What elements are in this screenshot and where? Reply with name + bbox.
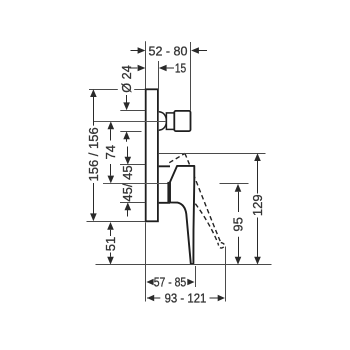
ext line plate face top — [158, 61, 160, 89]
svg-text:156 / 156: 156 / 156 — [86, 127, 101, 181]
ext line plate bottom left — [87, 221, 146, 223]
svg-text:93 - 121: 93 - 121 — [165, 291, 207, 306]
ext line bottom reference — [96, 264, 272, 266]
svg-text:15: 15 — [175, 61, 186, 76]
svg-text:95: 95 — [230, 217, 245, 231]
centerline knob axis — [94, 121, 166, 123]
svg-text:51: 51 — [103, 237, 118, 251]
svg-text:45/ 45: 45/ 45 — [120, 165, 135, 201]
handle base cap — [159, 166, 170, 203]
dimension 15 — [129, 67, 174, 69]
ext line knob tip top — [190, 42, 192, 111]
svg-text:74: 74 — [103, 145, 118, 159]
ext line wall face top — [145, 41, 147, 88]
dashed lever raised position upper edge — [169, 153, 185, 162]
diverter knob dome — [159, 112, 167, 130]
ext line 45 top — [120, 164, 145, 166]
dimension 129 — [257, 161, 259, 194]
ext line handle axis right 95 — [220, 183, 249, 185]
ext line dashed tip bottom 93-121 — [225, 247, 227, 302]
centerline handle axis — [103, 183, 168, 185]
dimension 45 / 45 — [127, 147, 129, 158]
svg-text:Ø 24: Ø 24 — [119, 65, 134, 93]
dimension 51 — [110, 230, 112, 236]
dimension 57 - 85 — [146, 279, 153, 285]
svg-text:129: 129 — [250, 194, 265, 216]
ext line knob bottom for dia 24 — [120, 131, 141, 133]
dimension 74 — [110, 129, 112, 140]
dimension 156 / 156 — [93, 97, 95, 126]
ext line lever edge bottom 57-85 — [195, 266, 197, 287]
ext line wall face bottom — [145, 223, 147, 302]
dimension 52 - 80 — [131, 50, 208, 52]
ext line plate top left — [89, 89, 118, 91]
dashed lever raised position outer edge — [185, 153, 221, 242]
svg-text:57 - 85: 57 - 85 — [154, 274, 187, 289]
dimension 95 — [238, 192, 240, 212]
dimension 93 - 121 — [147, 297, 160, 299]
diverter knob stem — [166, 113, 174, 129]
ext line knob top for dia 24 — [120, 110, 145, 112]
ext line dashed lever top 129 — [159, 153, 266, 155]
diverter knob cap — [174, 111, 190, 131]
svg-text:52 - 80: 52 - 80 — [149, 44, 188, 59]
dashed lever raised position tip — [218, 243, 224, 248]
dashed lever raised position inner edge — [186, 193, 219, 245]
handle pivot gap dark bar — [167, 182, 170, 204]
escutcheon plate side view — [146, 89, 158, 221]
lever handle blade — [170, 166, 194, 264]
ext line 45 bottom base cap — [120, 202, 145, 204]
